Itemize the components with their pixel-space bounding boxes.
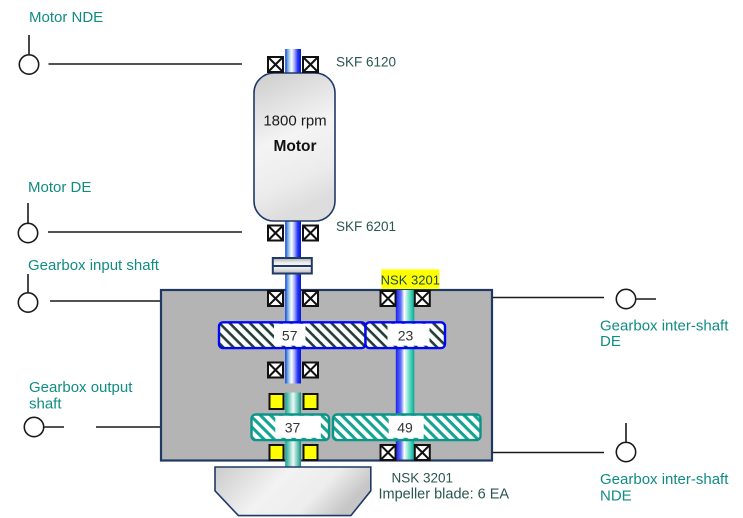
wire Gearbox input lead — [50, 300, 161, 302]
bearing output bottom left (yellow) — [270, 445, 284, 460]
svg-text:NSK 3201: NSK 3201 — [392, 471, 454, 486]
svg-text:Motor NDE: Motor NDE — [29, 9, 103, 26]
coupling — [273, 258, 312, 274]
shaft input (motor/gearbox input) — [285, 49, 301, 384]
svg-text:SKF 6201: SKF 6201 — [336, 219, 396, 234]
bearing SKF6120 left — [268, 57, 283, 72]
bearing NSK3201 top right — [415, 291, 430, 306]
measurement point Gearbox output shaft — [24, 417, 43, 436]
label NSK 3201 highlighted — [381, 269, 440, 289]
shaft intermediate — [396, 290, 415, 460]
wire Motor NDE lead — [49, 63, 243, 65]
bearing NSK3201 bottom right — [415, 445, 430, 460]
svg-text:Gearbox inter-shaft: Gearbox inter-shaft — [600, 318, 729, 335]
svg-text:Gearbox input shaft: Gearbox input shaft — [28, 257, 160, 274]
gear 49 — [333, 415, 481, 441]
svg-text:Motor DE: Motor DE — [28, 179, 91, 196]
gear 37 — [252, 415, 330, 441]
svg-text:Gearbox inter-shaft: Gearbox inter-shaft — [600, 471, 729, 488]
svg-text:NDE: NDE — [600, 488, 632, 505]
bearing SKF6120 right — [303, 57, 318, 72]
svg-text:SKF 6120: SKF 6120 — [336, 55, 396, 70]
svg-text:DE: DE — [600, 333, 621, 350]
wire Gearbox output tick — [45, 426, 65, 428]
motor M1 — [254, 73, 335, 221]
bearing gearbox input top left — [268, 291, 283, 306]
bearing input mid left — [268, 363, 283, 378]
bearing output bottom right (yellow) — [304, 445, 318, 460]
bearing NSK3201 top left — [381, 291, 396, 306]
gear 23 — [366, 322, 446, 348]
measurement point Gearbox inter-shaft NDE — [616, 423, 635, 462]
bearing output top left (yellow) — [270, 394, 284, 409]
svg-text:NSK 3201: NSK 3201 — [381, 273, 440, 288]
measurement point Gearbox input shaft — [18, 274, 37, 312]
wire Gearbox output lead — [96, 426, 161, 428]
svg-text:49: 49 — [397, 420, 413, 436]
svg-text:23: 23 — [398, 328, 414, 344]
shaft output — [285, 393, 301, 468]
bearing input mid right — [303, 363, 318, 378]
svg-text:Motor: Motor — [273, 138, 316, 155]
svg-text:1800 rpm: 1800 rpm — [263, 113, 326, 130]
bearing NSK3201 bottom left — [381, 445, 396, 460]
gearbox housing — [161, 290, 492, 461]
svg-text:37: 37 — [285, 420, 301, 436]
svg-text:Impeller blade: 6 EA: Impeller blade: 6 EA — [379, 487, 510, 503]
svg-text:Gearbox output: Gearbox output — [29, 379, 133, 396]
bearing SKF6201 left — [268, 226, 283, 241]
bearing output top right (yellow) — [304, 394, 318, 409]
svg-text:shaft: shaft — [29, 396, 62, 413]
impeller — [215, 467, 371, 516]
measurement point Motor DE — [18, 203, 37, 243]
gear 57 — [219, 322, 366, 348]
wire Motor DE lead — [48, 231, 242, 233]
measurement point Motor NDE — [19, 35, 38, 74]
wire Gearbox inter-shaft NDE lead — [492, 452, 604, 454]
svg-text:57: 57 — [282, 328, 298, 344]
measurement point Gearbox inter-shaft DE — [616, 289, 656, 308]
wire Gearbox inter-shaft DE lead — [492, 297, 604, 299]
bearing gearbox input top right — [303, 291, 318, 306]
bearing SKF6201 right — [303, 226, 318, 241]
